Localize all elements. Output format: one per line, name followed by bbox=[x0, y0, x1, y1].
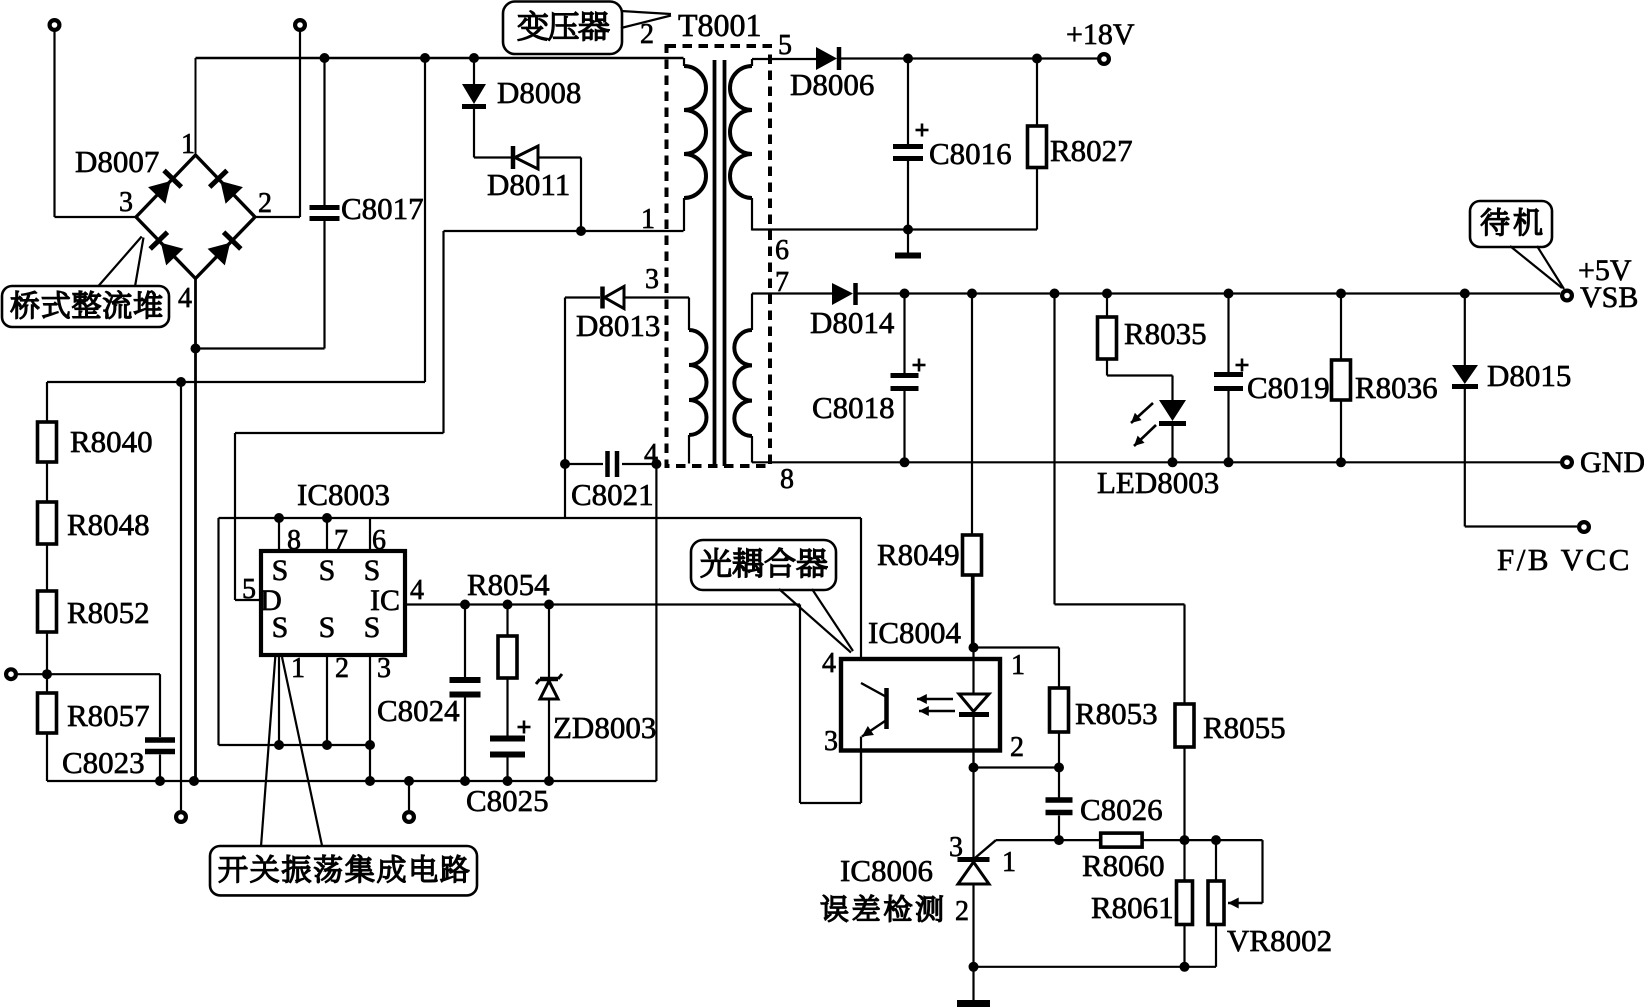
svg-text:R8055: R8055 bbox=[1203, 710, 1286, 745]
svg-text:VR8002: VR8002 bbox=[1227, 923, 1332, 958]
svg-text:R8053: R8053 bbox=[1075, 696, 1158, 731]
svg-text:D8008: D8008 bbox=[497, 75, 581, 110]
svg-text:D8007: D8007 bbox=[75, 144, 159, 179]
svg-text:3: 3 bbox=[377, 653, 391, 684]
svg-text:4: 4 bbox=[822, 648, 836, 679]
svg-text:C8024: C8024 bbox=[377, 693, 460, 728]
svg-text:4: 4 bbox=[178, 283, 192, 314]
svg-text:D: D bbox=[260, 584, 282, 617]
svg-text:+18V: +18V bbox=[1066, 18, 1135, 51]
svg-text:R8061: R8061 bbox=[1091, 890, 1174, 925]
svg-text:R8040: R8040 bbox=[70, 424, 153, 459]
svg-text:1: 1 bbox=[291, 653, 305, 684]
svg-text:LED8003: LED8003 bbox=[1097, 465, 1219, 500]
svg-text:R8035: R8035 bbox=[1124, 316, 1207, 351]
svg-text:C8019: C8019 bbox=[1247, 370, 1330, 405]
svg-text:IC8003: IC8003 bbox=[297, 477, 390, 512]
svg-text:C8026: C8026 bbox=[1080, 792, 1163, 827]
svg-text:R8027: R8027 bbox=[1050, 133, 1133, 168]
svg-text:R8054: R8054 bbox=[467, 567, 550, 602]
svg-text:7: 7 bbox=[334, 525, 348, 556]
svg-text:8: 8 bbox=[287, 525, 301, 556]
svg-text:R8048: R8048 bbox=[67, 507, 150, 542]
svg-text:R8036: R8036 bbox=[1355, 370, 1438, 405]
svg-text:3: 3 bbox=[949, 832, 963, 863]
svg-text:2: 2 bbox=[258, 188, 272, 219]
svg-text:T8001: T8001 bbox=[678, 7, 762, 43]
svg-text:D8006: D8006 bbox=[790, 67, 874, 102]
svg-text:C8018: C8018 bbox=[812, 390, 895, 425]
svg-text:7: 7 bbox=[775, 267, 789, 298]
svg-text:S: S bbox=[319, 554, 336, 587]
svg-text:D8011: D8011 bbox=[487, 167, 570, 202]
svg-text:IC8006: IC8006 bbox=[840, 853, 933, 888]
svg-text:C8017: C8017 bbox=[341, 191, 424, 226]
svg-text:GND: GND bbox=[1580, 446, 1644, 479]
svg-text:2: 2 bbox=[955, 896, 969, 927]
svg-text:IC: IC bbox=[370, 584, 400, 617]
svg-text:5: 5 bbox=[778, 30, 792, 61]
svg-text:R8060: R8060 bbox=[1082, 848, 1165, 883]
svg-text:3: 3 bbox=[824, 726, 838, 757]
svg-text:D8013: D8013 bbox=[576, 308, 660, 343]
svg-text:2: 2 bbox=[640, 19, 654, 50]
svg-text:R8049: R8049 bbox=[877, 537, 960, 572]
svg-text:S: S bbox=[364, 554, 381, 587]
svg-text:C8023: C8023 bbox=[62, 745, 145, 780]
svg-text:1: 1 bbox=[181, 129, 195, 160]
svg-text:2: 2 bbox=[1010, 732, 1024, 763]
svg-text:F/B VCC: F/B VCC bbox=[1497, 542, 1632, 577]
svg-text:6: 6 bbox=[775, 235, 789, 266]
svg-text:6: 6 bbox=[372, 525, 386, 556]
svg-text:C8025: C8025 bbox=[466, 783, 549, 818]
svg-text:R8057: R8057 bbox=[67, 698, 150, 733]
svg-text:ZD8003: ZD8003 bbox=[553, 710, 656, 745]
svg-text:1: 1 bbox=[641, 204, 655, 235]
svg-text:8: 8 bbox=[780, 464, 794, 495]
svg-text:S: S bbox=[272, 554, 289, 587]
svg-text:VSB: VSB bbox=[1580, 281, 1638, 314]
svg-text:C8016: C8016 bbox=[929, 136, 1012, 171]
svg-text:3: 3 bbox=[119, 187, 133, 218]
svg-text:C8021: C8021 bbox=[571, 477, 654, 512]
svg-text:D8014: D8014 bbox=[810, 305, 895, 340]
svg-text:4: 4 bbox=[644, 439, 658, 470]
svg-text:D8015: D8015 bbox=[1487, 358, 1571, 393]
svg-text:IC8004: IC8004 bbox=[868, 615, 962, 650]
svg-text:1: 1 bbox=[1002, 847, 1016, 878]
svg-text:R8052: R8052 bbox=[67, 595, 150, 630]
svg-text:S: S bbox=[319, 611, 336, 644]
svg-text:4: 4 bbox=[410, 575, 424, 606]
svg-text:1: 1 bbox=[1011, 650, 1025, 681]
svg-text:5: 5 bbox=[242, 574, 256, 605]
svg-text:2: 2 bbox=[335, 653, 349, 684]
svg-text:3: 3 bbox=[645, 264, 659, 295]
